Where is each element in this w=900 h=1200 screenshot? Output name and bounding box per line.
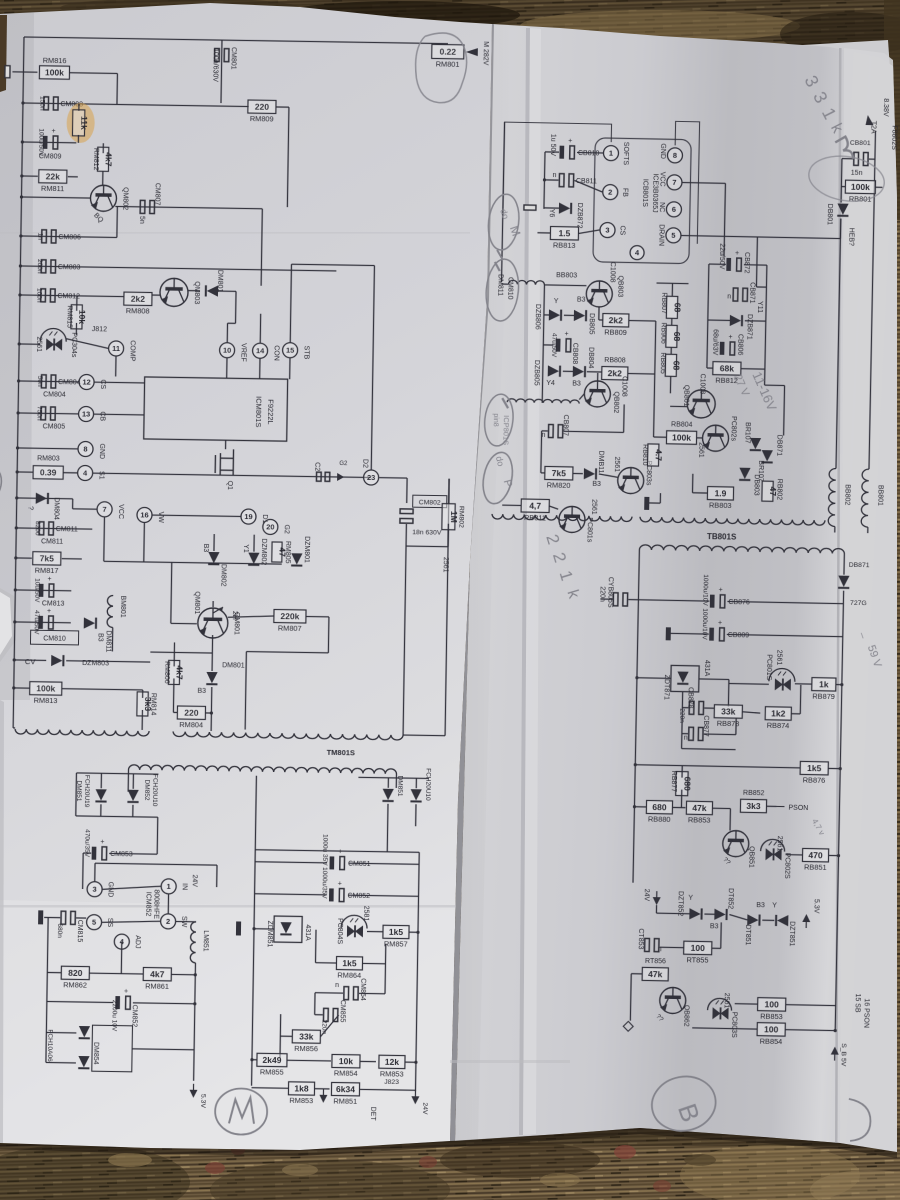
wire row y745 [682, 749, 736, 750]
svg-text:RB813: RB813 [553, 241, 576, 250]
svg-text:5n: 5n [138, 216, 145, 224]
svg-text:RT855: RT855 [686, 955, 708, 964]
svg-text:13: 13 [82, 410, 90, 419]
resistor RM862 820 [61, 966, 89, 979]
svg-text:BB802: BB802 [843, 484, 850, 505]
svg-text:RM820: RM820 [547, 480, 571, 489]
svg-text:4.7: 4.7 [654, 449, 664, 461]
svg-text:VREF: VREF [239, 343, 246, 362]
svg-text:SOFTS: SOFTS [622, 142, 629, 166]
resistor RB853 47k [686, 801, 712, 814]
svg-text:RB808: RB808 [604, 357, 626, 364]
resistor RM857 1k5 [383, 925, 409, 938]
svg-text:RB811: RB811 [524, 513, 546, 522]
svg-text:n: n [684, 735, 688, 742]
svg-text:VW: VW [157, 512, 164, 524]
svg-text:n: n [553, 172, 557, 179]
resistor RB853 100 [758, 998, 786, 1012]
svg-text:DM852: DM852 [143, 779, 150, 800]
resistor RM804 220 [177, 706, 205, 719]
svg-text:B3: B3 [202, 544, 209, 553]
svg-text:Y4: Y4 [546, 380, 555, 387]
regulator pin2 SW [161, 914, 176, 929]
pin 3 CS [600, 222, 615, 237]
resistor RB805 68 vertical [665, 354, 676, 376]
pin 8 GND [667, 148, 682, 163]
svg-text:F8802S: F8802S [890, 125, 897, 150]
wire row CM808 [23, 103, 249, 107]
wire row y560 [104, 561, 282, 564]
svg-text:2561: 2561 [590, 499, 597, 515]
capacitor CM813 47u/50V [15, 589, 71, 592]
pencil circled M [215, 1088, 268, 1135]
svg-text:16: 16 [140, 510, 148, 519]
arrow S_B 5V [831, 1047, 839, 1061]
resistor RB809 2k2 [603, 314, 629, 327]
wires drain cluster [756, 286, 766, 288]
zener DZB805 Y4 [548, 365, 560, 376]
resistor RM802 1M vertical [442, 504, 455, 530]
svg-text:3: 3 [92, 885, 96, 894]
svg-text:CS: CS [618, 225, 625, 235]
transistor QB851 [723, 830, 749, 856]
wires ICM852 [103, 885, 161, 890]
resistor RM806 4k7 vertical [168, 660, 179, 684]
svg-text:33k: 33k [721, 706, 736, 716]
transistor QB801 [687, 390, 716, 419]
capacitor C2 [316, 472, 329, 481]
wire 24V rail lower block [255, 850, 419, 853]
svg-text:1k5: 1k5 [342, 958, 357, 968]
svg-text:RB807: RB807 [660, 292, 667, 314]
svg-text:RM857: RM857 [384, 939, 408, 948]
svg-text:4k7: 4k7 [150, 969, 165, 979]
pin 7 VCC [667, 175, 682, 190]
right sheet edge strip [835, 48, 842, 1143]
wire right edge vertical x456 [445, 479, 449, 736]
IC ICM801S F9222L [144, 377, 288, 441]
transistor QB852 [659, 987, 685, 1013]
optocoupler PC803S 2561 [708, 998, 732, 1010]
svg-text:RM864: RM864 [337, 971, 361, 980]
svg-text:+: + [568, 138, 572, 145]
svg-text:3k3: 3k3 [746, 801, 761, 811]
svg-text:DB804: DB804 [587, 347, 594, 369]
svg-text:2561: 2561 [776, 836, 783, 852]
svg-text:B3: B3 [577, 297, 586, 304]
svg-text:+: + [51, 128, 55, 135]
capacitor CM852b 2200u/10V [115, 996, 120, 1009]
svg-text:RM812: RM812 [92, 148, 99, 171]
ground terminal CB809 [666, 627, 671, 640]
svg-text:CM805: CM805 [43, 423, 66, 430]
svg-text:DM854: DM854 [92, 1042, 99, 1065]
svg-text:DB805: DB805 [588, 313, 595, 335]
resistor RM851 6k34 [331, 1082, 359, 1095]
svg-text:8008HFE: 8008HFE [152, 889, 159, 919]
svg-text:FB: FB [621, 188, 628, 197]
svg-text:n: n [727, 293, 731, 300]
svg-text:FCH20U19: FCH20U19 [83, 775, 91, 808]
rectifier DM852 right [410, 789, 421, 801]
terminal input [5, 66, 10, 78]
svg-text:RB803: RB803 [709, 501, 732, 510]
svg-text:D2: D2 [361, 459, 368, 468]
svg-text:150n: 150n [38, 96, 45, 111]
svg-text:C1008: C1008 [620, 376, 627, 397]
capacitor CM801 100n/630V [220, 40, 223, 103]
pin 6 NC [666, 202, 681, 217]
svg-text:10k: 10k [77, 310, 87, 325]
pin 20 G2 [263, 519, 278, 534]
diode DM811 B3 [84, 617, 96, 628]
svg-text:DT852: DT852 [727, 888, 734, 909]
wire left bus [13, 37, 24, 728]
svg-text:VCC: VCC [658, 172, 665, 187]
resistor RB810 4.7 vertical [648, 444, 659, 466]
svg-text:PSON: PSON [788, 805, 808, 812]
winding BB802 vertical [828, 468, 836, 526]
svg-text:47k: 47k [648, 969, 663, 979]
svg-text:2k49: 2k49 [262, 1055, 281, 1065]
wire vertical x265 [261, 209, 262, 286]
resistor RM808 2k2 [124, 292, 152, 305]
zener DZM803 CV [14, 659, 46, 662]
resistor RB876 1k5 [800, 761, 828, 775]
wire pin8 top loop [502, 122, 505, 282]
zener DZM801 Y1 [291, 553, 302, 565]
pencil circled B [647, 1071, 720, 1136]
svg-text:RM802: RM802 [457, 506, 464, 528]
svg-text:2H: 2H [231, 611, 238, 620]
regulator ICM852 pin1 IN [161, 879, 176, 894]
svg-text:RM806: RM806 [163, 661, 170, 684]
resistor RM812 4k7 vertical [97, 147, 108, 171]
svg-text:1: 1 [609, 149, 613, 158]
zener DZB872 Y6 [559, 203, 571, 214]
svg-text:RB880: RB880 [648, 814, 671, 823]
diode DM811 B3 [584, 468, 596, 479]
left edge curl [0, 588, 16, 662]
svg-text:Y: Y [554, 298, 559, 305]
capacitor CYB805S 220n [613, 593, 627, 606]
svg-text:QM801: QM801 [193, 591, 200, 614]
svg-text:1k5: 1k5 [807, 763, 822, 773]
svg-text:15 SB: 15 SB [854, 993, 861, 1013]
svg-text:RM854: RM854 [334, 1068, 358, 1077]
svg-text:CM851: CM851 [348, 861, 371, 868]
svg-text:DZM802: DZM802 [260, 538, 267, 565]
svg-text:RM804: RM804 [179, 720, 203, 729]
svg-text:+: + [735, 250, 739, 257]
rectifier DM854 FCH10A06 [79, 1026, 90, 1038]
svg-text:+: + [338, 849, 342, 856]
svg-text:CM854: CM854 [359, 978, 366, 1001]
svg-text:220: 220 [255, 101, 270, 111]
svg-text:100: 100 [764, 1024, 779, 1034]
svg-text:Y11: Y11 [756, 301, 763, 313]
svg-text:RB853: RB853 [688, 815, 711, 824]
arrow 24V [411, 1090, 419, 1104]
wire pin5 drain right [681, 236, 757, 237]
svg-text:RM856: RM856 [294, 1044, 318, 1053]
capacitor CB872 22u/50V [726, 258, 731, 271]
zener DZT852 Y [689, 908, 701, 919]
svg-text:431A: 431A [703, 660, 710, 677]
svg-text:CB807: CB807 [562, 415, 569, 437]
svg-text:68: 68 [672, 303, 682, 313]
svg-text:RB809: RB809 [604, 328, 627, 337]
svg-text:100: 100 [765, 999, 780, 1009]
svg-text:NC: NC [658, 202, 665, 212]
svg-text:PC802s: PC802s [729, 416, 736, 442]
diode DB801 [837, 203, 848, 215]
capacitor CM804 50n [41, 375, 55, 388]
svg-text:+: + [100, 839, 104, 846]
svg-text:2561: 2561 [613, 456, 620, 472]
inductor LM851 [176, 920, 196, 922]
svg-text:GND: GND [659, 143, 666, 159]
svg-text:7k5: 7k5 [552, 468, 567, 478]
capacitor CB877 [689, 727, 703, 740]
svg-text:2561: 2561 [697, 442, 704, 458]
pin 2 FB [603, 184, 618, 199]
svg-text:DM811: DM811 [104, 630, 111, 652]
svg-text:+: + [564, 331, 568, 338]
svg-text:2: 2 [166, 917, 170, 926]
svg-text:1k: 1k [819, 679, 829, 689]
svg-text:S_B 5V: S_B 5V [840, 1043, 847, 1067]
svg-text:DM851: DM851 [396, 775, 403, 796]
diode DM801 [188, 290, 200, 292]
diode DB871b [761, 450, 772, 462]
svg-text:VCC: VCC [117, 504, 124, 519]
svg-text:ICB801S: ICB801S [641, 179, 649, 207]
pencil circle bottom right partial [848, 1099, 871, 1141]
svg-text:RB876: RB876 [803, 775, 826, 784]
svg-text:CB809: CB809 [728, 632, 750, 639]
svg-text:C1008: C1008 [609, 262, 616, 283]
optocoupler PC801S 2561 [769, 668, 795, 681]
pin 10 VREF [219, 343, 234, 358]
svg-text:470: 470 [808, 850, 823, 860]
capacitor CM815 680n [61, 911, 75, 924]
svg-text:DRAIN: DRAIN [657, 224, 664, 246]
resistor RM853 12k [379, 1055, 405, 1068]
capacitor CM811 8200 [16, 528, 92, 529]
svg-text:5.3V: 5.3V [199, 1094, 206, 1109]
capacitor CB808 47u/50V [556, 339, 561, 352]
shunt ZDM851 431A [274, 916, 302, 942]
IC ICB801S outline loop [502, 118, 699, 244]
svg-text:M 282V: M 282V [482, 41, 489, 66]
diode DM802 B3 [213, 534, 215, 551]
svg-text:2561: 2561 [723, 993, 730, 1009]
capacitor CM853 470u/35V [92, 847, 97, 860]
capacitor CM854 [344, 987, 358, 1000]
svg-text:1k8: 1k8 [294, 1083, 309, 1093]
arrow M 282V [466, 48, 478, 56]
svg-text:8: 8 [83, 445, 87, 454]
pencil mark left edge [0, 468, 2, 498]
resistor RM855 2k49 [257, 1053, 287, 1066]
svg-text:ZDM851: ZDM851 [266, 920, 273, 947]
pin 19 D1 [241, 509, 256, 524]
svg-text:24V: 24V [421, 1102, 428, 1115]
svg-text:QB862: QB862 [682, 1005, 689, 1027]
wire TM801S left drop [157, 817, 159, 832]
svg-text:IN: IN [181, 883, 188, 890]
svg-text:CM806: CM806 [58, 234, 81, 241]
svg-text:24V: 24V [191, 874, 198, 887]
svg-text:14: 14 [256, 346, 265, 355]
svg-text:BM801: BM801 [119, 595, 126, 617]
resistor RB804 100k [666, 431, 696, 445]
fuse RM801 0.22 [432, 44, 464, 59]
resistor RB854 100 [757, 1023, 785, 1037]
wire pin23 down network [379, 477, 407, 479]
resistor RB806 68 vertical [666, 325, 677, 347]
svg-text:RM853: RM853 [289, 1096, 313, 1105]
inductor BM801 [107, 595, 113, 627]
svg-text:1.9: 1.9 [714, 488, 726, 498]
capacitor CM812 100n [20, 295, 124, 297]
svg-text:RT856: RT856 [645, 958, 666, 965]
svg-text:RB804: RB804 [671, 421, 693, 428]
svg-text:RB874: RB874 [767, 721, 790, 730]
svg-text:n: n [335, 982, 339, 989]
svg-text:100n/630V: 100n/630V [211, 48, 219, 82]
svg-text:CV: CV [25, 657, 36, 666]
arrow 5.3V diode row [802, 914, 810, 928]
pencil arrow pin8 ICP801S [502, 398, 508, 408]
svg-text:PC802S: PC802S [783, 853, 791, 880]
pin 23 D2 [364, 470, 379, 485]
transistor QM803 [160, 278, 188, 306]
capacitor CM803 200n [20, 266, 336, 271]
diode DB803 [739, 468, 750, 480]
capacitor CB878 220n [689, 701, 703, 714]
pin 4 [630, 246, 644, 260]
svg-text:RM862: RM862 [63, 980, 87, 989]
svg-text:DM804: DM804 [52, 497, 59, 520]
svg-text:DT851: DT851 [744, 924, 751, 945]
MOSFET Q1 [215, 449, 233, 475]
svg-text:1: 1 [167, 882, 171, 891]
svg-text:4,7: 4,7 [529, 500, 541, 510]
diode DB804 B3 [573, 366, 585, 377]
right paper sheet [455, 24, 897, 1152]
svg-text:20: 20 [266, 522, 274, 531]
svg-text:RB877: RB877 [670, 771, 677, 793]
svg-text:CB808: CB808 [571, 343, 578, 365]
svg-text:680n: 680n [56, 923, 63, 938]
svg-text:CM852: CM852 [130, 1005, 137, 1028]
svg-text:CS: CS [99, 379, 106, 389]
svg-text:ICM801S: ICM801S [254, 396, 263, 427]
resistor RM815 10k vertical [71, 305, 82, 329]
svg-text:CM810: CM810 [43, 635, 66, 642]
svg-text:24V: 24V [643, 889, 650, 902]
diode DM801 B3 lower [211, 635, 214, 671]
svg-text:12: 12 [82, 378, 90, 387]
svg-text:DZB872: DZB872 [576, 203, 583, 229]
svg-text:0.39: 0.39 [40, 467, 57, 477]
svg-text:CT853: CT853 [637, 928, 644, 949]
svg-text:?: ? [27, 506, 34, 510]
svg-text:CB810: CB810 [578, 150, 600, 157]
svg-text:2561: 2561 [442, 557, 449, 573]
svg-text:47k: 47k [692, 803, 707, 813]
svg-text:DB871: DB871 [775, 435, 782, 457]
svg-text:11: 11 [112, 344, 120, 353]
svg-text:2561: 2561 [775, 650, 782, 666]
svg-text:C2: C2 [313, 462, 320, 471]
svg-text:G2: G2 [283, 524, 290, 534]
resistor RM817 7k5 [16, 557, 32, 559]
svg-text:ICE3B0365J: ICE3B0365J [651, 173, 659, 212]
svg-text:PC804S: PC804S [336, 918, 343, 945]
svg-text:FCH20U10: FCH20U10 [151, 774, 159, 807]
svg-text:PC304s: PC304s [70, 332, 77, 358]
resistor RM805 47 vertical [272, 542, 282, 562]
svg-text:200n: 200n [36, 259, 43, 274]
capacitor CM806 1n [21, 236, 117, 238]
svg-text:2200u 10V: 2200u 10V [110, 1000, 118, 1032]
paper sheet behind top-right [786, 40, 892, 98]
svg-text:CM853: CM853 [110, 851, 133, 858]
svg-text:B3: B3 [756, 902, 765, 909]
svg-text:100: 100 [691, 943, 706, 953]
svg-text:6k34: 6k34 [336, 1084, 355, 1094]
fabric red flecks [205, 1162, 225, 1174]
left edge dark sliver [0, 15, 7, 92]
svg-text:4k7: 4k7 [174, 665, 184, 680]
svg-text:7k5: 7k5 [40, 553, 55, 563]
resistor RB851 470 [802, 848, 828, 861]
svg-text:68: 68 [672, 332, 682, 342]
svg-text:BB803: BB803 [556, 272, 577, 279]
svg-text:5: 5 [671, 231, 675, 240]
svg-text:PC803S: PC803S [730, 1012, 738, 1039]
resistor RM854 10k [332, 1054, 360, 1067]
svg-text:RB853: RB853 [760, 1012, 783, 1021]
pencil DM811 CM810 note [495, 262, 500, 271]
svg-text:RM853: RM853 [380, 1069, 404, 1078]
small diamond connector [623, 1021, 633, 1031]
wire loop right of RM807 [327, 617, 330, 653]
svg-text:RB805: RB805 [659, 352, 666, 374]
svg-text:CM801: CM801 [230, 47, 237, 70]
svg-text:CB872: CB872 [743, 252, 750, 274]
resistor RM864 1k5 [336, 957, 362, 970]
svg-text:TM801S: TM801S [327, 748, 355, 757]
svg-text:CB871: CB871 [748, 282, 755, 304]
svg-text:RB878: RB878 [717, 719, 740, 728]
capacitor CB876 1000u/10V [710, 595, 715, 608]
svg-text:DZB805: DZB805 [533, 360, 540, 386]
svg-text:2581: 2581 [362, 906, 369, 922]
svg-text:CB: CB [98, 411, 105, 421]
svg-text:Y: Y [688, 895, 693, 902]
pin 13 CB [78, 406, 93, 421]
capacitor CB809 1000u/10V [709, 628, 714, 641]
resistor RT855 100 [684, 941, 712, 955]
svg-text:DB803: DB803 [752, 474, 759, 496]
resistor RM820 7k5 [545, 466, 573, 480]
wire row y650 [150, 651, 212, 654]
svg-text:DZT852: DZT852 [676, 891, 683, 917]
